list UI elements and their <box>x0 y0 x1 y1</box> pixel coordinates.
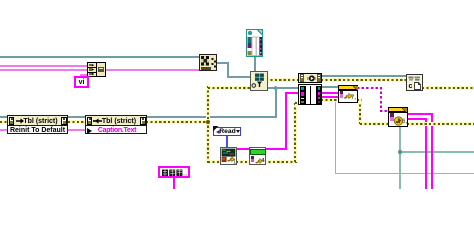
svg-text:1: 1 <box>233 160 236 165</box>
